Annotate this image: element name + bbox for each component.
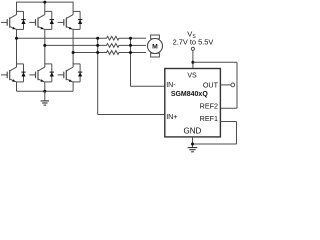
junction: VS rail tap (191, 61, 194, 64)
wire: phase B row to motor (131, 44, 147, 46)
wire: left sense bus vertical (97, 38, 99, 114)
wire: VS supply drop (192, 50, 194, 68)
diode D1 (Q1 freewheel) (21, 11, 25, 29)
junction: left bus row2 (96, 44, 99, 47)
wire: phase A row to motor (131, 37, 147, 39)
transistor Q1 (high-side phase A IGBT) (1, 11, 24, 30)
junction: phase C node (72, 51, 75, 54)
op-amp U1 SGM840xQ (current-sense amplifier) body (165, 69, 221, 137)
junction: phase B node (43, 44, 46, 47)
wire: Q1 collector stub (16, 2, 18, 12)
diode D6 (Q6 freewheel) (78, 64, 82, 82)
svg-text:SGM840xQ: SGM840xQ (171, 91, 209, 98)
diode D2 (Q2 freewheel) (50, 11, 54, 29)
transistor Q2 (high-side phase B IGBT) (29, 11, 52, 30)
svg-text:IN+: IN+ (166, 112, 177, 121)
wire: positive DC bus (top rail) (17, 1, 74, 3)
junction: bottom rail / Q5 emitter / ground tap (43, 90, 46, 93)
ground (U1) (188, 148, 198, 152)
svg-text:REF2: REF2 (200, 102, 218, 111)
terminal: VS supply input (191, 47, 194, 50)
wire: REF1 to ground run (193, 143, 237, 145)
junction: right bus row3 (129, 51, 132, 54)
wire: OUT lead (220, 84, 231, 86)
junction: phase A / left sense bus (15, 37, 18, 40)
svg-text:IN-: IN- (166, 82, 176, 89)
diode D4 (Q4 freewheel) (21, 64, 25, 82)
svg-text:VS: VS (187, 72, 197, 79)
wire: negative DC bus (bottom rail) (17, 90, 74, 92)
resistor R3 (phase C shunt) (98, 51, 131, 55)
svg-text:GND: GND (184, 126, 202, 135)
svg-text:2.7V to 5.5V: 2.7V to 5.5V (173, 38, 214, 47)
resistor R2 (phase B shunt) (98, 44, 131, 48)
transistor Q6 (low-side phase C IGBT) (58, 63, 81, 82)
wire: phase C row (left segment) (73, 52, 98, 54)
wire: ground stem (bridge) (44, 91, 46, 101)
wire: Q4 emitter stub (16, 82, 18, 91)
junction: left bus row1 (96, 37, 99, 40)
wire: Q6 emitter stub (72, 82, 74, 91)
transistor Q5 (low-side phase B IGBT) (29, 63, 52, 82)
ground (bridge) (41, 101, 49, 105)
wire: phase C vertical (Q3 emitter to Q6 collector) (72, 29, 74, 64)
wire: REF1 lead (220, 121, 236, 123)
wire: phase B row (left segment) (45, 44, 98, 46)
wire: IN- lead (131, 85, 165, 87)
svg-text:OUT: OUT (203, 80, 219, 89)
wire: REF2 lead (220, 107, 237, 109)
junction: left bus row3 (96, 51, 99, 54)
wire: GND pin stem (192, 137, 194, 148)
junction: right bus row1 (129, 37, 132, 40)
svg-text:REF1: REF1 (200, 114, 218, 123)
junction: top rail / Q2 collector (43, 1, 46, 4)
junction: GND node (191, 143, 194, 146)
wire: phase A row (left segment) (17, 37, 98, 39)
wire: REF1 tie down (236, 122, 238, 145)
wire: Q3 collector stub (72, 2, 74, 12)
wire: REF2 tie to VS (vertical) (236, 62, 238, 108)
wire: phase A vertical (Q1 emitter to Q4 collector) (16, 29, 18, 64)
wire: VS rail to REF2 column (193, 61, 237, 63)
transistor Q3 (high-side phase C IGBT) (58, 11, 81, 30)
wire: phase C row to motor (131, 52, 147, 54)
wire: Q2 collector stub (44, 2, 46, 11)
motor M1 (3-phase motor) (148, 35, 163, 57)
transistor Q4 (low-side phase A IGBT) (1, 63, 24, 82)
wire: phase B vertical (Q2 emitter to Q5 collector) (44, 29, 46, 64)
diode D5 (Q5 freewheel) (50, 64, 54, 82)
wire: right sense bus vertical (130, 38, 132, 86)
resistor R1 (phase A shunt) (98, 36, 131, 40)
wire: Q5 emitter stub (44, 82, 46, 91)
terminal: OUT (231, 83, 235, 87)
wire: IN+ lead (98, 114, 165, 116)
junction: right bus row2 (129, 44, 132, 47)
diode D3 (Q3 freewheel) (78, 11, 82, 29)
svg-text:M: M (152, 44, 158, 51)
